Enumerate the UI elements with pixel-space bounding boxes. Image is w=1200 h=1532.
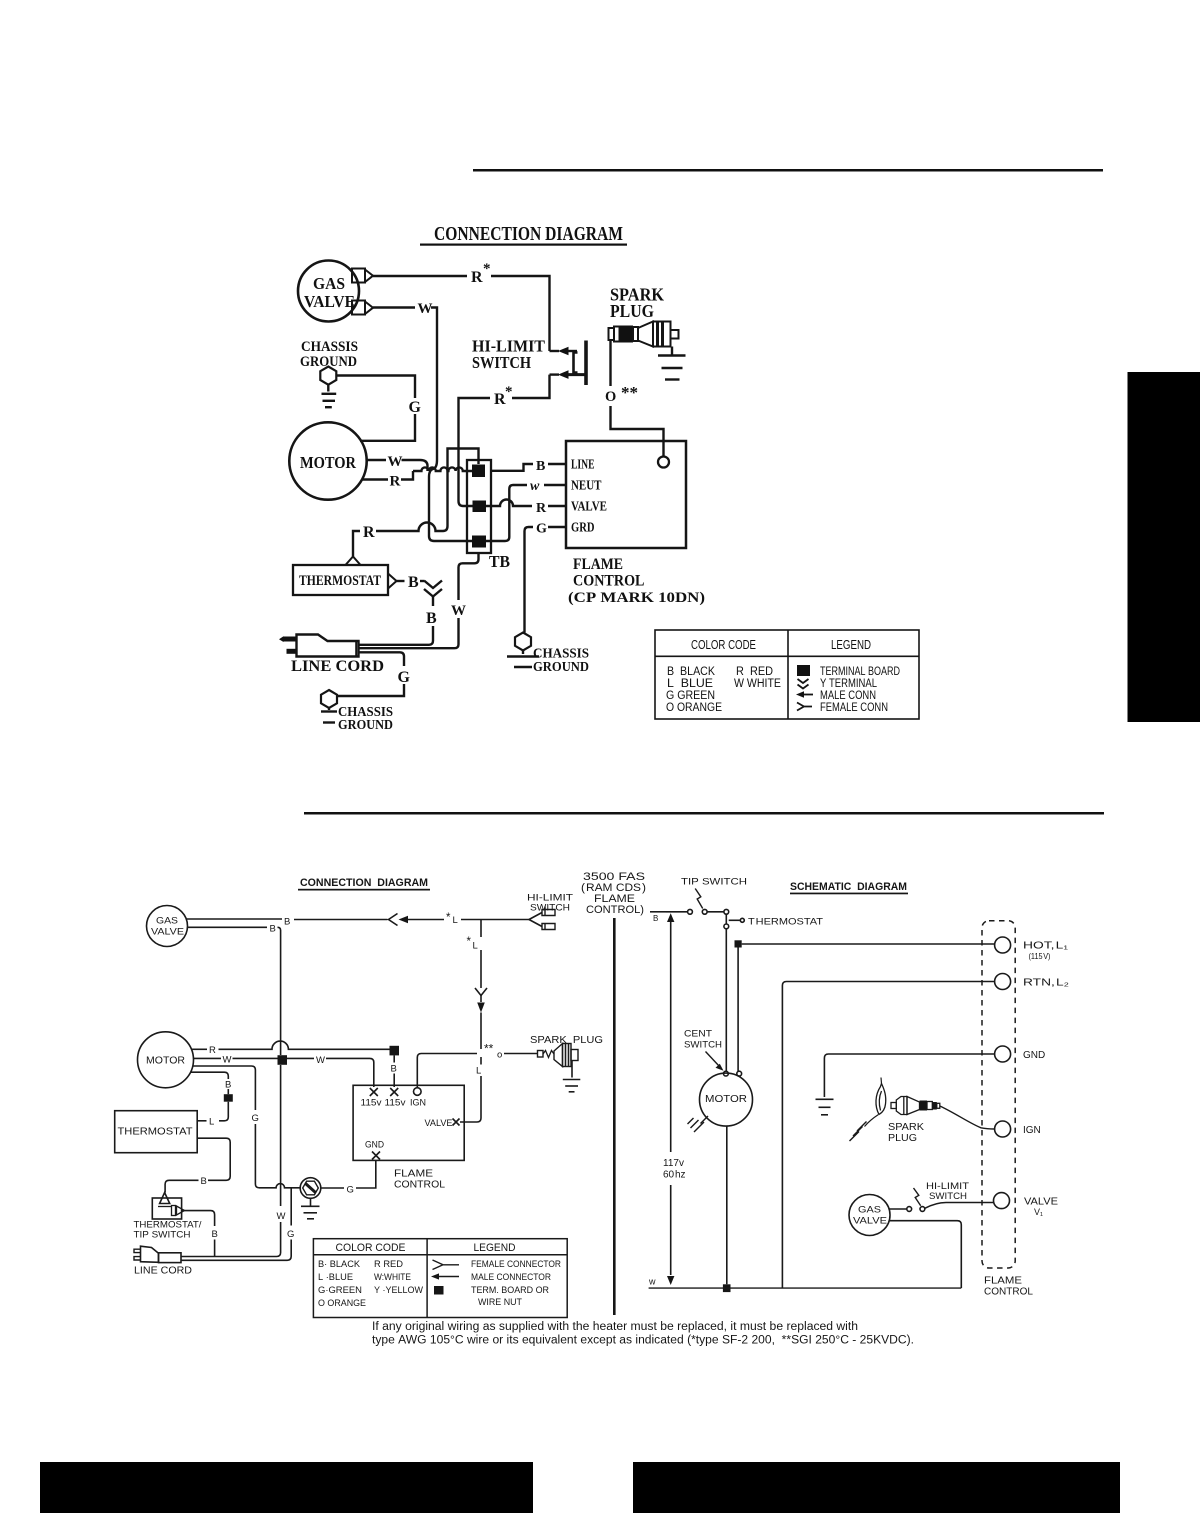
terminal x (VALVE) xyxy=(453,1119,460,1126)
wire W TB to NEUT xyxy=(486,479,566,541)
svg-text:*: * xyxy=(467,936,472,948)
svg-text:R: R xyxy=(363,524,375,541)
title CONNECTION DIAGRAM (lower left) xyxy=(298,877,430,891)
gas valve GV1 xyxy=(298,261,359,322)
svg-text:TERM. BOARD OR: TERM. BOARD OR xyxy=(471,1285,549,1296)
legend symbol: male connector xyxy=(431,1273,459,1279)
wire O spark plug to flame control xyxy=(605,340,664,457)
svg-text:VALVE: VALVE xyxy=(571,500,607,515)
wire B gas valve to hi-limit (with connector pair) xyxy=(187,912,530,928)
svg-text:B: B xyxy=(270,924,276,935)
svg-text:B: B xyxy=(284,917,290,928)
svg-text:VALVE: VALVE xyxy=(304,292,355,311)
wire L hi-limit down to valve (with connectors) xyxy=(460,920,487,1123)
svg-text:115v: 115v xyxy=(361,1098,383,1108)
svg-text:**: ** xyxy=(484,1042,494,1056)
wire spark plug to IGN xyxy=(940,1106,995,1129)
chassis ground CG2 (flame control) xyxy=(507,633,589,675)
wire B motor to wire nut 3 xyxy=(191,1072,232,1094)
wire 117v 60hz vertical xyxy=(663,922,686,1275)
wire W gas valve down xyxy=(373,301,472,541)
hi-limit switch S1 xyxy=(472,337,586,386)
svg-text:B: B xyxy=(201,1176,207,1187)
svg-text:VALVE: VALVE xyxy=(151,927,184,938)
wire B TB to LINE xyxy=(491,459,566,474)
svg-text:MALE CONNECTOR: MALE CONNECTOR xyxy=(471,1272,551,1283)
wire nut (B/L junction) xyxy=(224,1094,233,1102)
svg-text:(CP MARK 10DN): (CP MARK 10DN) xyxy=(568,590,705,606)
svg-text:B· BLACK: B· BLACK xyxy=(318,1259,361,1270)
ground (spark plug) xyxy=(658,347,686,380)
svg-text:LEGEND: LEGEND xyxy=(831,638,871,652)
svg-text:GRD: GRD xyxy=(571,521,595,536)
flame control box U2 xyxy=(353,1085,464,1190)
wire gas valve to neutral bus xyxy=(889,1221,961,1288)
svg-text:V₁: V₁ xyxy=(1034,1207,1043,1217)
svg-text:B: B xyxy=(536,459,545,474)
svg-text:HOT, L₁: HOT, L₁ xyxy=(1023,941,1069,952)
spark plug P1 xyxy=(609,285,679,347)
wire motor to neutral bus xyxy=(726,1126,728,1284)
line cord PL2 xyxy=(134,1246,192,1276)
svg-text:R RED: R RED xyxy=(374,1259,403,1270)
wire G line cord to chassis ground xyxy=(338,652,411,696)
svg-text:R: R xyxy=(471,269,483,286)
svg-text:CONNECTION DIAGRAM: CONNECTION DIAGRAM xyxy=(434,223,623,245)
svg-text:B BLACK: B BLACK xyxy=(667,666,715,678)
flame symbol xyxy=(876,1078,886,1115)
gas valve terminal stub lower xyxy=(352,301,373,315)
svg-text:O: O xyxy=(605,389,616,405)
node arrow up (117v feed) xyxy=(667,913,674,922)
svg-text:117v: 117v xyxy=(663,1158,684,1169)
wire R* gas valve to hi-limit xyxy=(373,261,550,351)
flame control dashed boundary xyxy=(982,921,1033,1298)
svg-text:**: ** xyxy=(621,383,638,402)
svg-text:*: * xyxy=(483,261,491,277)
svg-text:CONTROL: CONTROL xyxy=(394,1179,445,1191)
svg-text:B: B xyxy=(391,1064,397,1075)
wire W TB to line cord xyxy=(360,553,479,648)
svg-text:w: w xyxy=(648,1277,656,1287)
wire B thermostat to Y terminal xyxy=(397,574,425,591)
svg-text:R: R xyxy=(209,1045,216,1056)
svg-text:L: L xyxy=(453,915,458,926)
wire B gas valve long vertical xyxy=(181,924,286,1257)
wire B tip switch to line cord xyxy=(182,1211,218,1257)
legend symbol: female conn xyxy=(797,703,812,711)
svg-text:TERMINAL BOARD: TERMINAL BOARD xyxy=(820,666,900,678)
gas valve GV2 xyxy=(147,906,188,947)
svg-text:115v: 115v xyxy=(385,1098,407,1108)
svg-text:L: L xyxy=(476,1066,481,1077)
color code legend table (lower) xyxy=(313,1239,567,1318)
line cord PL1 xyxy=(279,635,384,676)
svg-text:GROUND: GROUND xyxy=(338,717,393,732)
neutral bus wire W xyxy=(648,1277,961,1289)
svg-text:VALVE: VALVE xyxy=(853,1216,887,1227)
svg-text:VALVE: VALVE xyxy=(425,1118,453,1129)
terminal x (115v left) xyxy=(370,1088,378,1096)
wire nut (B/W junction) xyxy=(278,1055,288,1065)
legend table (upper) xyxy=(655,630,919,719)
svg-text:B: B xyxy=(426,610,437,627)
svg-text:O ORANGE: O ORANGE xyxy=(318,1298,366,1309)
svg-text:*: * xyxy=(446,912,451,924)
UPPER_DIAGRAM_START xyxy=(279,223,919,732)
svg-text:CHASSIS: CHASSIS xyxy=(301,339,358,355)
wire RTN L2 to neutral bus xyxy=(782,982,994,1289)
svg-text:SWITCH: SWITCH xyxy=(530,903,570,914)
terminal IGN xyxy=(995,1121,1041,1137)
hi-limit switch S4 xyxy=(889,1181,994,1211)
wire B to line cord xyxy=(360,597,438,645)
ground (spark plug 2) xyxy=(563,1061,581,1092)
wire W motor to TB xyxy=(367,454,428,471)
svg-text:G: G xyxy=(252,1113,259,1124)
svg-text:G·GREEN: G·GREEN xyxy=(318,1285,362,1296)
title SCHEMATIC DIAGRAM xyxy=(790,881,908,894)
legend symbol: wire nut square xyxy=(434,1286,444,1295)
svg-text:TIP SWITCH: TIP SWITCH xyxy=(681,877,747,888)
svg-text:G: G xyxy=(287,1229,294,1240)
LOWER_RIGHT_START xyxy=(613,877,1069,1316)
junction square (neutral node) xyxy=(723,1284,731,1292)
svg-text:T HERMOSTAT: T HERMOSTAT xyxy=(748,917,823,928)
wire G grommet to GND terminal xyxy=(321,1160,376,1195)
motor M2 xyxy=(138,1032,194,1088)
svg-text:w: w xyxy=(530,479,540,494)
header 3500 FAS (RAM CDS) FLAME CONTROL xyxy=(581,871,646,916)
svg-text:FEMALE CONNECTOR: FEMALE CONNECTOR xyxy=(471,1259,561,1270)
wire G junction to line cord xyxy=(181,1188,294,1261)
legend symbol: female connector xyxy=(433,1260,460,1270)
chassis ground CG1 (upper left) xyxy=(300,339,358,407)
spark gap hatches xyxy=(850,1115,879,1142)
svg-text:o: o xyxy=(497,1050,502,1061)
svg-text:W: W xyxy=(316,1055,325,1066)
thermostat contact pair xyxy=(724,914,823,929)
svg-text:*: * xyxy=(505,384,513,400)
svg-text:G: G xyxy=(347,1185,354,1196)
svg-text:MALE CONN: MALE CONN xyxy=(820,690,876,702)
hi-limit switch S2 (fork terminals) xyxy=(527,893,573,930)
svg-text:O ORANGE: O ORANGE xyxy=(666,702,722,714)
wire B thermostat to tip switch xyxy=(165,1138,230,1192)
svg-text:W: W xyxy=(418,301,433,317)
svg-text:GAS: GAS xyxy=(313,274,345,293)
svg-text:TB: TB xyxy=(489,552,510,571)
wire B wire nut to 115v terminal xyxy=(391,1055,397,1087)
svg-text:W:WHITE: W:WHITE xyxy=(374,1272,411,1283)
motor M1 xyxy=(289,422,366,499)
svg-text:R: R xyxy=(536,501,547,516)
svg-text:IGN: IGN xyxy=(410,1098,426,1108)
svg-text:CENT: CENT xyxy=(684,1029,712,1040)
svg-text:type AWG 105°C wire or its equ: type AWG 105°C wire or its equivalent ex… xyxy=(372,1335,914,1347)
footnote text xyxy=(372,1321,914,1347)
wire R* hi-limit to TB middle xyxy=(459,375,550,506)
svg-text:IGN: IGN xyxy=(1023,1125,1041,1136)
svg-text:B: B xyxy=(225,1080,231,1091)
wire G motor to grommet and GND xyxy=(193,1066,301,1188)
thermostat/tip switch S3 xyxy=(134,1193,202,1241)
terminal x (GND) xyxy=(372,1152,380,1160)
svg-text:FLAME: FLAME xyxy=(573,556,623,573)
svg-text:THERMOSTAT: THERMOSTAT xyxy=(299,573,381,589)
svg-text:GROUND: GROUND xyxy=(533,659,589,674)
svg-text:CONTROL): CONTROL) xyxy=(586,904,644,916)
svg-text:W: W xyxy=(223,1055,232,1066)
svg-text:NEUT: NEUT xyxy=(571,479,602,494)
spark plug P2 xyxy=(530,1034,603,1067)
wire bundle into TB with crossover hops xyxy=(413,467,472,471)
ground (GND) xyxy=(816,1099,834,1115)
svg-text:RTN, L₂: RTN, L₂ xyxy=(1023,978,1069,989)
svg-text:MOTOR: MOTOR xyxy=(146,1055,185,1067)
top rule xyxy=(473,169,1103,172)
ground (motor frame) xyxy=(688,1116,709,1132)
wire R thermostat to TB top xyxy=(353,449,479,557)
svg-text:L: L xyxy=(473,941,478,952)
thermostat TH2 xyxy=(115,1111,198,1153)
wire GND to chassis xyxy=(824,1054,994,1097)
svg-text:CONTROL: CONTROL xyxy=(573,573,645,590)
svg-text:CONNECTION DIAGRAM: CONNECTION DIAGRAM xyxy=(300,877,428,889)
wire nut (R/B junction) xyxy=(390,1046,400,1056)
terminal HOT L1 xyxy=(995,937,1069,961)
svg-text:Y TERMINAL: Y TERMINAL xyxy=(820,678,877,690)
wire R TB to VALVE xyxy=(486,500,566,517)
svg-text:GND: GND xyxy=(365,1140,384,1151)
terminal GND xyxy=(995,1046,1046,1062)
svg-text:L: L xyxy=(209,1117,214,1128)
wire R motor to wire nut xyxy=(192,1041,390,1056)
svg-text:B: B xyxy=(653,914,658,923)
cent switch label and arrow xyxy=(684,1029,724,1071)
terminal RTN L2 xyxy=(995,974,1070,990)
svg-text:60 hz: 60 hz xyxy=(663,1170,686,1181)
svg-text:If any original wiring as supp: If any original wiring as supplied with … xyxy=(372,1321,858,1333)
terminal VALVE V1 xyxy=(994,1193,1059,1217)
svg-text:MOTOR: MOTOR xyxy=(705,1093,747,1105)
wire G GRD to chassis ground xyxy=(525,522,567,633)
svg-text:SWITCH: SWITCH xyxy=(472,353,531,372)
svg-text:GAS: GAS xyxy=(156,916,178,927)
title CONNECTION DIAGRAM (upper) xyxy=(420,223,627,246)
terminal circle IGN xyxy=(414,1088,422,1096)
wire L wire nut to thermostat xyxy=(197,1102,228,1128)
svg-text:PLUG: PLUG xyxy=(888,1132,917,1144)
wire W motor to 115v terminal xyxy=(194,1055,374,1088)
svg-text:Y ·YELLOW: Y ·YELLOW xyxy=(374,1285,423,1296)
svg-text:LINE: LINE xyxy=(571,458,595,473)
svg-text:SWITCH: SWITCH xyxy=(929,1191,967,1202)
svg-text:LINE CORD: LINE CORD xyxy=(291,658,384,675)
tip switch S5 xyxy=(666,877,747,915)
svg-text:LEGEND: LEGEND xyxy=(474,1242,516,1254)
wire thermostat to cent switch xyxy=(725,929,727,1071)
svg-text:WIRE NUT: WIRE NUT xyxy=(478,1297,522,1308)
bottom left black bar xyxy=(40,1462,533,1513)
svg-text:GND: GND xyxy=(1023,1050,1045,1061)
spark plug P3 xyxy=(888,1097,940,1145)
wire R motor to TB xyxy=(362,471,413,490)
legend symbol: male conn xyxy=(796,691,813,698)
svg-text:W: W xyxy=(451,603,466,619)
gas valve GV3 xyxy=(849,1195,890,1236)
svg-text:L ·BLUE: L ·BLUE xyxy=(318,1272,353,1283)
node arrow down to neutral xyxy=(667,1276,674,1285)
svg-text:PLUG: PLUG xyxy=(610,301,654,321)
wire G chassis ground to motor xyxy=(337,376,422,441)
svg-text:G GREEN: G GREEN xyxy=(666,690,715,702)
terminal board TB xyxy=(467,460,510,571)
chassis ground CG3 (line cord) xyxy=(321,690,393,732)
middle rule xyxy=(304,812,1104,815)
svg-text:COLOR CODE: COLOR CODE xyxy=(691,638,756,652)
svg-text:W: W xyxy=(277,1211,286,1222)
bottom right black bar xyxy=(633,1462,1120,1513)
flame control box U1 xyxy=(566,441,705,606)
svg-text:(115 V): (115 V) xyxy=(1029,952,1051,961)
svg-text:VALVE: VALVE xyxy=(1024,1197,1058,1208)
svg-text:W WHITE: W WHITE xyxy=(734,678,781,690)
svg-text:SWITCH: SWITCH xyxy=(684,1040,722,1051)
svg-text:B: B xyxy=(408,574,419,591)
wire hot node down to cent switch xyxy=(737,948,739,1072)
legend symbol: terminal board xyxy=(797,665,810,676)
wire hot node to HOT L1 xyxy=(742,943,995,945)
junction square (hot node) xyxy=(735,940,742,947)
legend symbol: y terminal xyxy=(798,679,809,689)
motor M3 xyxy=(700,1073,753,1126)
svg-text:G: G xyxy=(536,522,547,537)
svg-text:G: G xyxy=(398,669,411,686)
ground (grommet) xyxy=(301,1198,320,1219)
svg-text:THERMOSTAT: THERMOSTAT xyxy=(118,1126,194,1138)
cent switch contacts xyxy=(724,1071,742,1076)
terminal x (115v right) xyxy=(390,1088,398,1096)
wire IGN to spark plug junction xyxy=(417,1042,537,1088)
svg-text:G: G xyxy=(409,399,422,416)
svg-text:R: R xyxy=(390,474,401,490)
svg-text:SCHEMATIC DIAGRAM: SCHEMATIC DIAGRAM xyxy=(790,881,907,893)
wire B line input xyxy=(650,912,666,923)
svg-text:MOTOR: MOTOR xyxy=(300,453,357,472)
thermostat TH1 xyxy=(293,557,397,596)
svg-text:LINE CORD: LINE CORD xyxy=(134,1265,192,1277)
Y terminal symbol xyxy=(424,581,442,597)
svg-text:B: B xyxy=(212,1229,218,1240)
right margin black tab xyxy=(1128,372,1200,722)
svg-text:L BLUE: L BLUE xyxy=(667,678,713,690)
svg-text:CONTROL: CONTROL xyxy=(984,1286,1033,1298)
section divider line xyxy=(613,918,616,1315)
svg-text:TIP SWITCH: TIP SWITCH xyxy=(134,1230,191,1241)
LOWER_LEFT_START xyxy=(115,871,914,1347)
svg-text:R RED: R RED xyxy=(736,666,773,678)
gas valve terminal stub upper xyxy=(352,269,373,283)
grommet (strain relief) xyxy=(300,1178,321,1199)
svg-text:COLOR CODE: COLOR CODE xyxy=(336,1242,406,1254)
svg-text:W: W xyxy=(388,454,403,470)
svg-text:GAS: GAS xyxy=(858,1205,881,1216)
svg-text:FEMALE CONN: FEMALE CONN xyxy=(820,702,888,714)
